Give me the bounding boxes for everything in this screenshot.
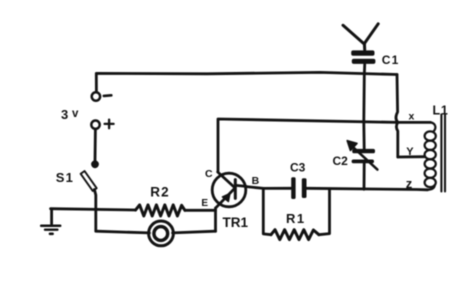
svg-text:Y: Y xyxy=(406,146,414,158)
wire: base to C3 xyxy=(246,187,291,189)
wire: switch to lower rail and down xyxy=(94,190,95,231)
svg-text:3: 3 xyxy=(61,107,68,122)
svg-text:v: v xyxy=(72,108,79,120)
wire: emitter node vertical xyxy=(214,208,217,231)
antenna xyxy=(343,24,378,50)
wire: tap Y xyxy=(398,155,425,158)
resistor R1 xyxy=(271,230,319,240)
svg-text:C1: C1 xyxy=(382,53,400,67)
svg-text:x: x xyxy=(409,111,415,123)
lamp LP1 (earphone) xyxy=(149,221,174,246)
capacitor C2 (variable) xyxy=(347,141,377,170)
resistor R1 right leg xyxy=(319,189,330,235)
wire: positive terminal to switch contact xyxy=(94,129,97,161)
wire: R2 to emitter node xyxy=(185,209,216,212)
battery B1 3V positive terminal xyxy=(91,121,99,129)
wire: top rail drop to tank node xyxy=(396,75,398,123)
wire: C1 down through rails to C2 xyxy=(362,65,366,149)
wire: collector up and across to coil xyxy=(218,119,398,171)
svg-text:C3: C3 xyxy=(290,161,306,175)
svg-text:C2: C2 xyxy=(333,154,349,168)
svg-text:TR1: TR1 xyxy=(223,215,249,230)
ground xyxy=(41,209,60,234)
wire: C2 bottom lead xyxy=(363,163,366,189)
battery B1 3V negative terminal xyxy=(92,92,100,100)
svg-text:R1: R1 xyxy=(286,211,306,226)
capacitor C1 xyxy=(351,50,375,64)
svg-text:L1: L1 xyxy=(433,104,449,118)
wire: C3 to coil tap z xyxy=(307,188,428,190)
resistor R1 left leg xyxy=(263,188,271,234)
inductor L1 core xyxy=(441,115,445,192)
node: switch pivot dot xyxy=(92,161,99,168)
wire: bottom rail right segment xyxy=(173,231,216,233)
capacitor C3 xyxy=(291,177,306,199)
svg-text:C: C xyxy=(205,168,213,180)
wire: tap x xyxy=(398,121,431,124)
svg-text:R2: R2 xyxy=(150,184,170,199)
switch S1 lever xyxy=(81,171,97,191)
svg-text:z: z xyxy=(406,176,413,191)
inductor L1 xyxy=(425,122,436,189)
svg-text:S1: S1 xyxy=(56,170,74,185)
wire: coil mid vertical x to Y xyxy=(396,122,397,157)
svg-text:E: E xyxy=(201,198,208,209)
wire: left rail (ground to R2) xyxy=(51,209,136,210)
transistor TR1 xyxy=(212,172,246,208)
wire: battery negative to top rail xyxy=(96,72,397,92)
wire: bottom rail left segment xyxy=(96,231,150,233)
resistor R2 xyxy=(136,205,185,216)
svg-text:B: B xyxy=(252,175,260,187)
